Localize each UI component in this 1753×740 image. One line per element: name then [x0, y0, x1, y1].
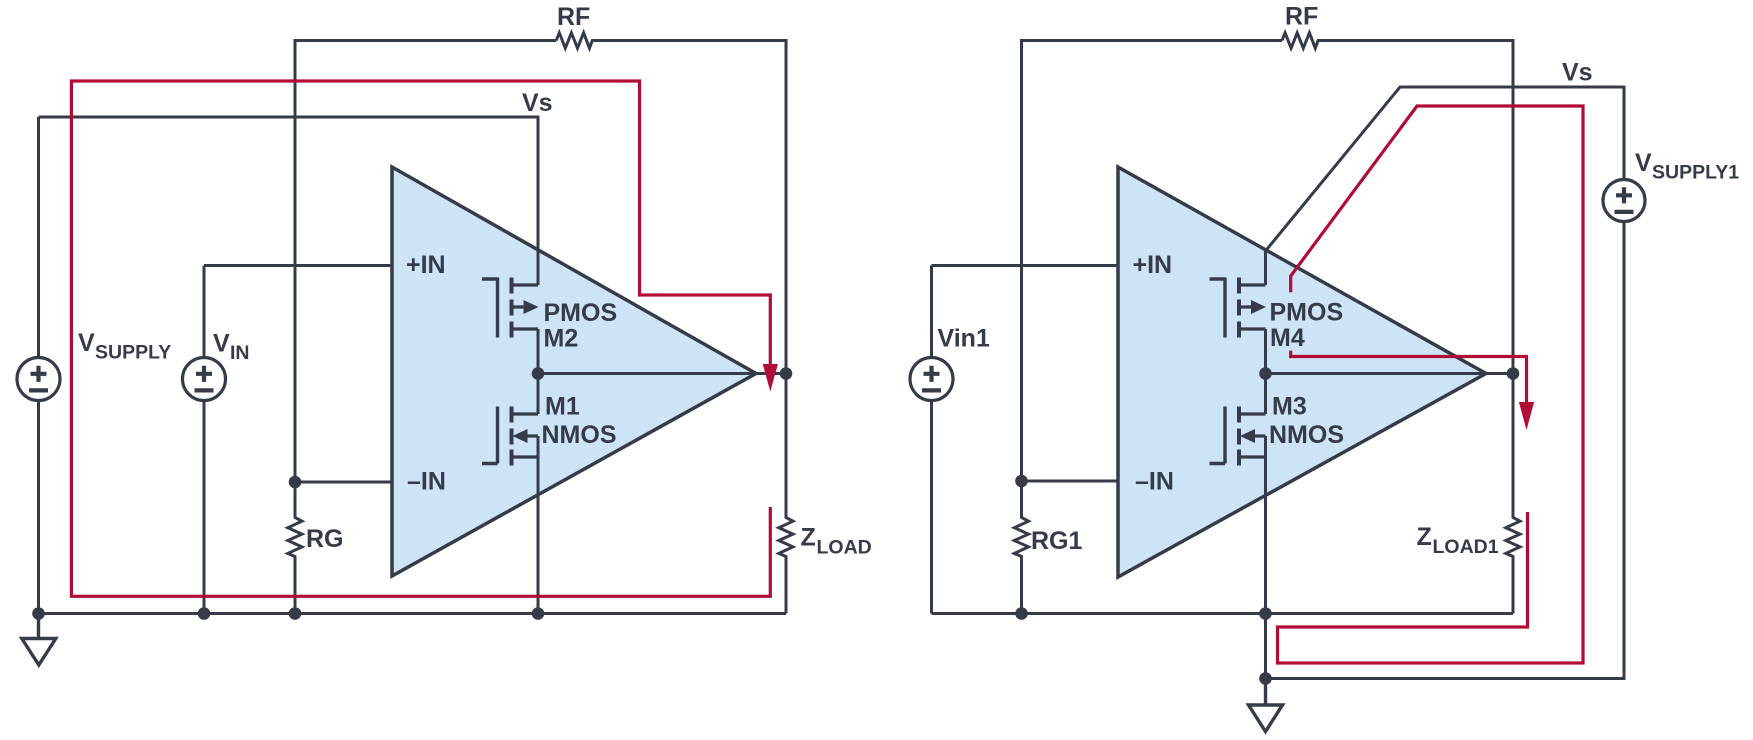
svg-text:Z: Z [801, 524, 816, 552]
transistor M2 PMOS symbol [482, 278, 539, 338]
wire: RF top wire with left and right legs (left circuit) [295, 41, 556, 483]
wire: V_SUPPLY to ground rail [37, 401, 40, 614]
svg-text:LOAD: LOAD [817, 537, 872, 559]
ground symbol (left) [22, 614, 56, 666]
resistor RF (right) zigzag [1282, 33, 1513, 374]
node: output junction (right) [1507, 367, 1520, 380]
svg-text:V: V [1635, 149, 1652, 177]
wire: V_IN to ground rail [203, 401, 206, 614]
wire: Vin1 vertical upper [930, 266, 933, 358]
node: RG1 ground junction [1015, 607, 1028, 620]
svg-text:M2: M2 [544, 325, 579, 353]
wire: -IN input (left) [295, 481, 392, 484]
wire: output from internal node to output junction (left) [538, 372, 786, 375]
node: M4/M3 midpoint junction [1259, 367, 1272, 380]
svg-text:RG1: RG1 [1031, 527, 1083, 555]
node: M3 ground rail junction [1259, 607, 1272, 620]
resistor Z_LOAD1 [1506, 374, 1520, 614]
svg-text:RF: RF [1285, 3, 1318, 31]
svg-text:M1: M1 [545, 393, 580, 421]
wire: +IN input (left) [204, 264, 392, 267]
wire: V_SUPPLY branch upper [37, 117, 40, 358]
ground rail (right circuit) [932, 612, 1514, 615]
node: -IN junction [289, 476, 302, 489]
svg-text:M3: M3 [1272, 393, 1307, 421]
wire: RF top wire with legs (right circuit) [1022, 41, 1283, 482]
svg-text:NMOS: NMOS [542, 421, 617, 449]
svg-text:Vs: Vs [522, 89, 553, 117]
wire: Vs supply rail from V_SUPPLY top to op-amp (left) [39, 117, 539, 285]
wire: Vs diagonal from M4 drain to V_SUPPLY1 (right) [1266, 87, 1625, 285]
red current arrow (left) [763, 364, 778, 392]
resistor RG1 [1014, 481, 1028, 614]
wire: -IN input (right) [1022, 480, 1119, 483]
node: output junction (left) [780, 367, 793, 380]
wire: M3 source through ground rail to ground [1264, 436, 1267, 679]
svg-text:–IN: –IN [1135, 468, 1174, 496]
red current arrow (right) [1519, 402, 1534, 430]
voltage source Vin1 [910, 358, 953, 401]
op-amp U1 triangle body [392, 167, 756, 576]
red current loop (left circuit) [71, 81, 770, 596]
svg-text:LOAD1: LOAD1 [1433, 536, 1499, 558]
wire: V_IN vertical upper [203, 266, 206, 358]
resistor Z_LOAD [779, 374, 793, 614]
svg-text:RF: RF [557, 3, 590, 31]
svg-text:IN: IN [230, 342, 250, 364]
svg-text:PMOS: PMOS [544, 299, 618, 327]
node: V_SUPPLY ground junction [32, 607, 45, 620]
svg-text:NMOS: NMOS [1269, 421, 1344, 449]
node: V_IN ground junction [198, 607, 211, 620]
svg-text:Z: Z [1417, 523, 1432, 551]
svg-text:Vs: Vs [1562, 59, 1593, 87]
svg-text:+IN: +IN [1133, 251, 1173, 279]
resistor RF (left) zigzag [556, 33, 786, 374]
wire: output from internal node to output junction (right) [1266, 372, 1514, 375]
svg-text:Vin1: Vin1 [938, 325, 990, 353]
svg-text:M4: M4 [1270, 324, 1305, 352]
transistor M3 NMOS symbol [1210, 407, 1266, 466]
red current loop segment below M4 label [1291, 351, 1527, 404]
transistor M4 PMOS symbol [1210, 278, 1267, 338]
wire: Vin1 to ground rail [930, 401, 933, 614]
svg-text:SUPPLY: SUPPLY [95, 342, 171, 364]
op-amp U2 triangle body [1118, 167, 1486, 577]
wire: +IN input (right) [932, 264, 1119, 267]
svg-text:SUPPLY1: SUPPLY1 [1652, 162, 1739, 184]
resistor RG [288, 482, 302, 614]
svg-text:V: V [213, 330, 230, 358]
voltage source V_SUPPLY [17, 358, 60, 401]
node: M1 ground junction [532, 607, 545, 620]
node: RG ground junction [289, 607, 302, 620]
svg-text:RG: RG [306, 525, 344, 553]
ground symbol (right) [1249, 679, 1283, 732]
svg-text:+IN: +IN [406, 251, 446, 279]
wire: V_SUPPLY1 bottom return [1266, 222, 1625, 679]
svg-text:V: V [78, 329, 95, 357]
wire: op-amp internal vertical between M4 and M3 [1264, 329, 1267, 414]
red current loop (right circuit) [1278, 106, 1584, 663]
svg-text:–IN: –IN [407, 468, 446, 496]
ground rail (left circuit) [39, 612, 787, 615]
wire: op-amp internal vertical between M2 and M1 [537, 329, 540, 414]
node: M2/M1 midpoint junction [532, 367, 545, 380]
wire: M1 source to ground rail [537, 436, 540, 614]
transistor M1 NMOS symbol [482, 407, 538, 466]
node: ground / supply return junction [1259, 672, 1272, 685]
node: -IN junction (right) [1015, 475, 1028, 488]
voltage source V_IN [183, 358, 226, 401]
voltage source V_SUPPLY1 [1603, 180, 1645, 222]
svg-text:PMOS: PMOS [1270, 299, 1344, 327]
